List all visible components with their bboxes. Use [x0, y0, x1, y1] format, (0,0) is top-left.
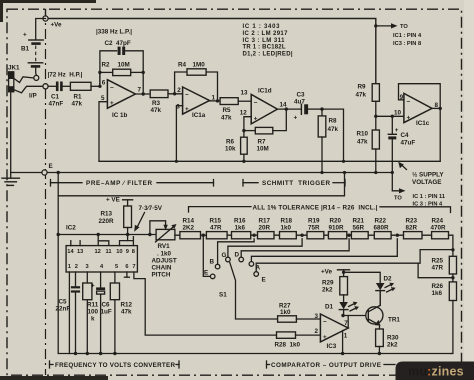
svg-text:R2: R2: [102, 62, 111, 69]
svg-text:TO: TO: [394, 196, 402, 202]
resistor R7: [244, 130, 255, 132]
svg-text:. 1k0: . 1k0: [157, 251, 172, 258]
svg-text:R16: R16: [234, 218, 246, 225]
wire output pin7: [135, 93, 150, 95]
svg-text:R18: R18: [281, 218, 293, 225]
svg-text:14: 14: [67, 249, 74, 255]
resistor R21: [351, 232, 368, 239]
svg-text:3: 3: [86, 264, 89, 270]
svg-text:E: E: [204, 270, 208, 277]
svg-text:47k: 47k: [121, 309, 132, 316]
svg-text:47k: 47k: [221, 115, 232, 122]
resistor R20: [328, 232, 346, 239]
pin1 to bus: [342, 331, 344, 354]
junction pin2: [173, 92, 176, 95]
svg-text:PITCH: PITCH: [152, 272, 171, 279]
svg-text:−: −: [185, 91, 189, 98]
svg-text:7: 7: [132, 264, 135, 270]
ground: [2, 177, 19, 179]
wire long 0V link: [58, 173, 344, 196]
op-amp IC1c: [404, 93, 432, 122]
svg-text:IC 1b: IC 1b: [112, 112, 128, 119]
svg-text:1k0: 1k0: [280, 309, 291, 316]
svg-text:R3: R3: [152, 100, 161, 107]
resistor R9: [372, 84, 379, 102]
svg-text:IC 3 : LM 311: IC 3 : LM 311: [243, 38, 286, 44]
shield dash-dot line: [45, 9, 47, 375]
node A junction pin6: [98, 85, 101, 88]
svg-text:CHAIN: CHAIN: [152, 265, 172, 272]
resistor R22: [374, 232, 391, 239]
diode D2 LED: [376, 283, 385, 290]
svg-text:D: D: [235, 252, 240, 259]
svg-text:R25: R25: [432, 258, 444, 265]
svg-text:SCHMITT TRIGGER: SCHMITT TRIGGER: [262, 180, 330, 187]
svg-text:12: 12: [240, 109, 248, 116]
svg-text:R15: R15: [210, 218, 222, 225]
svg-text:+: +: [395, 127, 399, 134]
svg-text:7·3∕7·5V: 7·3∕7·5V: [139, 205, 163, 212]
svg-text:2: 2: [75, 264, 78, 270]
svg-text:+ VE: + VE: [106, 197, 120, 204]
tolerance note: [189, 207, 252, 212]
node I/P: [43, 84, 48, 89]
svg-text:−: −: [323, 318, 327, 325]
svg-text:10: 10: [394, 110, 402, 117]
svg-text:D2: D2: [384, 276, 393, 283]
svg-text:TR1: TR1: [388, 317, 400, 324]
svg-text:10M: 10M: [257, 146, 269, 153]
contact E1: [203, 235, 210, 276]
svg-text:IC3 : PIN 8: IC3 : PIN 8: [393, 41, 421, 47]
svg-text:I/P: I/P: [29, 93, 37, 100]
resistor R19: [307, 232, 324, 239]
resistor R25: [449, 256, 456, 274]
svg-text:47R: 47R: [210, 225, 222, 232]
capacitor C4: [391, 116, 393, 134]
IC2 package: [66, 246, 137, 272]
svg-text:+: +: [294, 114, 298, 121]
svg-text:22nF: 22nF: [56, 306, 71, 313]
svg-text:680R: 680R: [374, 225, 390, 232]
svg-text:PRE–AMP ∕ FILTER: PRE–AMP ∕ FILTER: [86, 180, 152, 187]
svg-text:IC1c: IC1c: [416, 120, 430, 127]
svg-text:+: +: [185, 106, 189, 113]
junction on +Ve drop: [374, 24, 377, 27]
svg-text:−: −: [110, 84, 114, 91]
svg-text:47k: 47k: [357, 138, 368, 145]
svg-text:ALL 1% TOLERANCE |R14 – R26 I: ALL 1% TOLERANCE |R14 – R26 INCL.|: [253, 204, 378, 211]
output 8: [432, 107, 440, 109]
svg-text:20R: 20R: [259, 225, 271, 232]
svg-text:R6: R6: [226, 139, 235, 146]
svg-text:6: 6: [125, 264, 128, 270]
transistor TR1: [366, 307, 383, 324]
svg-text:10: 10: [116, 249, 122, 255]
svg-text:IC1 : PIN 4: IC1 : PIN 4: [393, 33, 422, 39]
svg-text:1: 1: [344, 332, 348, 339]
svg-text:TR 1 : BC182L: TR 1 : BC182L: [243, 45, 286, 51]
svg-text:82R: 82R: [406, 225, 418, 232]
bus junction dots: [74, 352, 77, 355]
jack switch contact to battery: [14, 77, 34, 83]
svg-text:+: +: [407, 114, 411, 121]
resistor R15: [206, 232, 227, 239]
svg-text:R7: R7: [258, 139, 267, 146]
wire +Ve rail: [46, 19, 376, 84]
svg-text:+: +: [110, 100, 114, 107]
node E: [42, 170, 47, 175]
svg-text:R17: R17: [259, 218, 271, 225]
svg-text:9: 9: [126, 249, 129, 255]
svg-text:7: 7: [138, 87, 142, 94]
diode D1 LED: [343, 295, 345, 302]
svg-text:mu:zines: mu:zines: [408, 364, 464, 378]
svg-text:D1: D1: [325, 304, 334, 311]
svg-text:47uF: 47uF: [401, 140, 416, 147]
svg-text:R13: R13: [101, 211, 113, 218]
resistor R26: [449, 282, 456, 301]
svg-text:IC 1 : 3403: IC 1 : 3403: [243, 24, 281, 30]
svg-text:|72 Hz H.P.|: |72 Hz H.P.|: [48, 72, 83, 79]
svg-text:IC1a: IC1a: [192, 112, 206, 119]
battery B1: [36, 19, 46, 40]
svg-text:8: 8: [132, 249, 135, 255]
junction tap R25 R26: [451, 276, 454, 279]
ground rail E: [11, 172, 393, 174]
svg-text:IC 2 : LM 2917: IC 2 : LM 2917: [243, 31, 289, 37]
resistor R18: [280, 232, 297, 239]
svg-text:14: 14: [280, 102, 288, 109]
pin7 wire to R28: [134, 272, 277, 335]
svg-text:½ SUPPLY: ½ SUPPLY: [412, 171, 444, 179]
svg-text:R28 1k0: R28 1k0: [275, 342, 301, 349]
op-amp IC1d: [251, 94, 277, 124]
capacitor C5: [71, 286, 80, 288]
svg-text:G: G: [222, 252, 227, 259]
TO lower arrow: [392, 173, 399, 191]
pins 10 9 8 to supply line: [120, 241, 134, 246]
svg-text:10M: 10M: [118, 62, 130, 69]
svg-text:47k: 47k: [72, 101, 83, 108]
wire output to R5: [210, 100, 221, 102]
svg-text:IC 1 : PIN 11: IC 1 : PIN 11: [413, 194, 446, 200]
muzines logo: [396, 362, 474, 380]
svg-text:R10: R10: [357, 130, 369, 137]
svg-text:R12: R12: [121, 302, 133, 309]
svg-text:2k2: 2k2: [322, 287, 333, 294]
scan edge artifacts: [0, 0, 96, 3]
node +Ve: [43, 16, 48, 21]
svg-text:C5: C5: [59, 299, 68, 306]
svg-text:+Ve: +Ve: [51, 22, 63, 29]
svg-text:R9: R9: [358, 83, 367, 90]
svg-text:10k: 10k: [225, 146, 236, 153]
svg-text:C3: C3: [297, 92, 306, 99]
svg-text:47k: 47k: [356, 91, 367, 98]
svg-text:R14: R14: [183, 218, 195, 225]
svg-text:1k6: 1k6: [235, 225, 246, 232]
resistor R6: [243, 131, 245, 138]
svg-text:B1: B1: [21, 46, 30, 53]
resistor R1: [70, 82, 91, 90]
jack sleeve wire: [10, 92, 12, 173]
svg-text:910R: 910R: [329, 225, 345, 232]
resistor R12: [110, 283, 119, 300]
svg-text:2: 2: [315, 328, 319, 335]
pins 1-5 wires down: [68, 272, 70, 354]
half-supply bus: [99, 160, 440, 162]
svg-text:R30: R30: [387, 335, 399, 342]
svg-text:R20: R20: [330, 218, 342, 225]
svg-text:2K2: 2K2: [183, 225, 195, 232]
svg-text:3: 3: [315, 313, 319, 320]
svg-text:100: 100: [88, 309, 99, 316]
svg-text:470R: 470R: [431, 225, 447, 232]
svg-text:R5: R5: [223, 107, 232, 114]
svg-text:R1: R1: [74, 94, 83, 101]
svg-text:R21: R21: [353, 218, 365, 225]
resistor R10: [372, 130, 379, 149]
resistor R3: [150, 90, 168, 98]
svg-text:RV1: RV1: [158, 243, 171, 250]
svg-text:JK1: JK1: [8, 65, 20, 72]
op-amp IC1b: [107, 80, 135, 109]
junction R8: [320, 107, 323, 110]
wire arrow TO IC1 pin4: [376, 25, 392, 27]
wire pin12: [244, 117, 251, 131]
capacitor C3: [300, 104, 302, 114]
resistor R16: [232, 232, 251, 239]
svg-text:220R: 220R: [99, 218, 115, 225]
wire pins 12 11 feed: [97, 233, 100, 236]
half supply arrow: [401, 164, 407, 169]
feedback loop pin9: [399, 84, 441, 109]
wire pin3 to bus: [176, 106, 182, 162]
resistor R8: [321, 109, 323, 116]
svg-text:2k2: 2k2: [387, 342, 398, 349]
svg-text:R22: R22: [375, 218, 387, 225]
jack tip to I/P: [14, 86, 43, 93]
wire output 14: [277, 108, 300, 110]
output pin7 up: [347, 316, 349, 329]
svg-text:E: E: [49, 163, 53, 170]
svg-text:IC2: IC2: [66, 225, 76, 232]
svg-text:5: 5: [115, 264, 118, 270]
wire to bus corner: [322, 109, 344, 161]
svg-text:12: 12: [95, 249, 101, 255]
capacitor C2: [100, 51, 117, 87]
contact D: [241, 239, 349, 257]
wire IC2 top common: [58, 234, 156, 236]
svg-text:|338 Hz L.P.|: |338 Hz L.P.|: [96, 29, 132, 36]
wire +Ve to D2: [344, 272, 381, 283]
svg-text:COMPARATOR – OUTPUT DRIVE: COMPARATOR – OUTPUT DRIVE: [271, 362, 381, 369]
chain wire: [175, 235, 453, 256]
chain tap dots: [202, 234, 205, 237]
svg-text:5: 5: [101, 95, 105, 102]
svg-text:11: 11: [106, 249, 112, 255]
svg-text:D1,2 : LED|RED|: D1,2 : LED|RED|: [243, 51, 293, 57]
svg-text:C6: C6: [102, 302, 111, 309]
svg-text:B: B: [210, 259, 215, 266]
svg-text:75R: 75R: [308, 225, 320, 232]
pin stubs 14 13: [70, 241, 72, 246]
svg-text:FREQUENCY TO VOLTS CONVERTE: FREQUENCY TO VOLTS CONVERTER: [55, 362, 175, 369]
resistor R30: [376, 329, 384, 347]
svg-text:1k6: 1k6: [432, 290, 443, 297]
svg-text:S1: S1: [219, 292, 227, 299]
svg-text:−: −: [407, 98, 411, 105]
resistor R11: [83, 283, 92, 300]
svg-text:IC1d: IC1d: [258, 88, 272, 95]
svg-text:1M0: 1M0: [193, 62, 206, 69]
resistor R17: [258, 232, 275, 239]
svg-text:4u7: 4u7: [294, 99, 305, 106]
resistor R2: [113, 69, 131, 75]
svg-text:+Ve: +Ve: [321, 269, 333, 276]
contact A: [251, 239, 397, 262]
svg-text:C1: C1: [51, 94, 60, 101]
resistor R4: [175, 72, 187, 94]
pin6 stub: [126, 272, 128, 277]
svg-text:6: 6: [102, 79, 106, 86]
svg-text:R8: R8: [329, 118, 338, 125]
svg-text:IC3: IC3: [327, 343, 337, 350]
wiper S1: [230, 263, 278, 319]
svg-text:VOLTAGE: VOLTAGE: [412, 179, 442, 186]
svg-text:k: k: [91, 316, 95, 323]
svg-text:13: 13: [77, 249, 83, 255]
contact B: [218, 239, 255, 264]
svg-text:E: E: [262, 277, 266, 284]
resistor R13: [126, 233, 129, 236]
svg-text:+: +: [323, 334, 327, 341]
svg-text:47k: 47k: [151, 107, 162, 114]
svg-text:C2 47pF: C2 47pF: [105, 40, 131, 47]
resistor R29: [340, 277, 348, 295]
svg-text:R11: R11: [87, 302, 99, 309]
resistor R5: [220, 98, 238, 105]
resistor R28: [277, 332, 296, 338]
svg-text:−: −: [254, 99, 258, 106]
svg-text:R29: R29: [322, 280, 334, 287]
svg-text:1k0: 1k0: [281, 225, 292, 232]
resistor R24: [432, 232, 449, 239]
svg-text:13: 13: [241, 90, 249, 97]
wire E drop to IC2: [58, 173, 451, 354]
svg-text:1: 1: [68, 264, 71, 270]
svg-text:ADJUST: ADJUST: [152, 258, 177, 265]
resistor R23: [404, 232, 423, 239]
svg-text:56R: 56R: [353, 225, 365, 232]
svg-text:R19: R19: [308, 218, 320, 225]
svg-text:C4: C4: [401, 132, 410, 139]
svg-text:+: +: [91, 283, 95, 290]
wire pin5 to bus: [99, 102, 107, 162]
svg-text:1uF: 1uF: [101, 309, 112, 316]
op-amp IC3: [320, 314, 348, 342]
resistor R14: [180, 232, 201, 239]
potentiometer RV1: [148, 233, 151, 236]
svg-text:R23: R23: [406, 218, 418, 225]
op-amp IC1a: [183, 87, 210, 114]
svg-text:47R: 47R: [432, 265, 444, 272]
svg-text:TO: TO: [400, 24, 408, 30]
contact G: [228, 239, 302, 257]
wire output to TR1 base: [343, 315, 369, 317]
junction pin10: [374, 115, 377, 118]
resistor R27: [278, 316, 297, 322]
svg-text:+: +: [23, 32, 27, 39]
svg-text:R26: R26: [432, 283, 444, 290]
svg-text:+: +: [254, 115, 258, 122]
svg-text:R4: R4: [178, 62, 187, 69]
capacitor C1: [48, 85, 56, 87]
svg-text:R24: R24: [432, 218, 444, 225]
svg-text:47nF: 47nF: [49, 101, 64, 108]
svg-text:2: 2: [177, 87, 181, 94]
contact E2: [256, 250, 451, 272]
svg-text:47k: 47k: [328, 126, 339, 133]
